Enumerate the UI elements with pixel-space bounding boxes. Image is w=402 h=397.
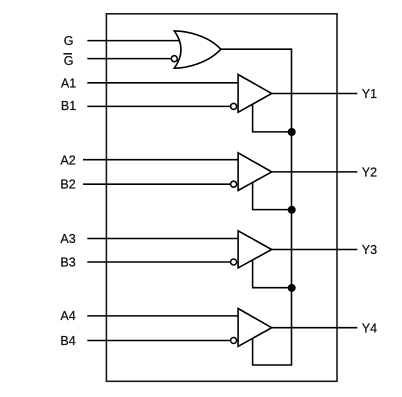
wire Y4 output bbox=[265, 327, 357, 329]
junction dot row 1 bbox=[288, 128, 296, 136]
wire enable branch 3 bbox=[253, 253, 292, 288]
wire A3 input bbox=[87, 238, 241, 240]
wire B1 input bbox=[87, 105, 233, 107]
buffer U5 row 4 bbox=[238, 309, 272, 347]
overline of G-bar bbox=[63, 53, 72, 55]
wire enable branch 1 bbox=[253, 98, 292, 132]
inverting bubble B4 bbox=[231, 338, 237, 344]
inverting bubble on G-bar input of OR gate bbox=[171, 56, 177, 62]
inverting bubble B3 bbox=[231, 259, 237, 265]
IC boundary box bbox=[106, 14, 337, 382]
svg-text:A3: A3 bbox=[60, 232, 75, 246]
svg-text:G: G bbox=[64, 54, 74, 68]
svg-text:Y2: Y2 bbox=[362, 166, 377, 180]
svg-text:A4: A4 bbox=[60, 309, 75, 323]
svg-text:Y3: Y3 bbox=[362, 243, 377, 257]
wire Y2 output bbox=[265, 171, 357, 173]
junction dot row 2 bbox=[288, 206, 296, 214]
svg-text:B2: B2 bbox=[60, 177, 75, 191]
wire B2 input bbox=[83, 183, 234, 185]
wire Y1 output bbox=[265, 93, 357, 95]
svg-text:B3: B3 bbox=[60, 256, 75, 270]
svg-text:B1: B1 bbox=[61, 99, 76, 113]
OR gate U1 (enable) bbox=[174, 31, 221, 68]
wire Y3 output bbox=[265, 249, 357, 251]
svg-text:A1: A1 bbox=[61, 77, 76, 91]
buffer U3 row 2 bbox=[238, 153, 272, 191]
wire A1 input bbox=[87, 82, 241, 84]
wire enable branch 2 bbox=[253, 176, 292, 210]
wire enable net: OR output right then down to buffer 4 enable bbox=[219, 49, 292, 365]
buffer U4 row 3 bbox=[238, 231, 272, 268]
svg-text:Y4: Y4 bbox=[362, 321, 377, 335]
wire G input bbox=[87, 40, 185, 42]
svg-text:Y1: Y1 bbox=[362, 87, 377, 101]
svg-text:G: G bbox=[64, 34, 74, 48]
wire B4 input bbox=[87, 340, 233, 342]
wire B3 input bbox=[87, 261, 233, 263]
inverting bubble B1 bbox=[231, 103, 237, 109]
junction dot row 3 bbox=[288, 284, 296, 292]
svg-text:B4: B4 bbox=[60, 334, 75, 348]
inverting bubble B2 bbox=[231, 181, 237, 187]
buffer U2 row 1 bbox=[238, 75, 272, 113]
svg-text:A2: A2 bbox=[60, 153, 75, 167]
wire G-bar input bbox=[87, 58, 174, 60]
wire A4 input bbox=[87, 315, 241, 317]
wire A2 input bbox=[83, 159, 241, 161]
